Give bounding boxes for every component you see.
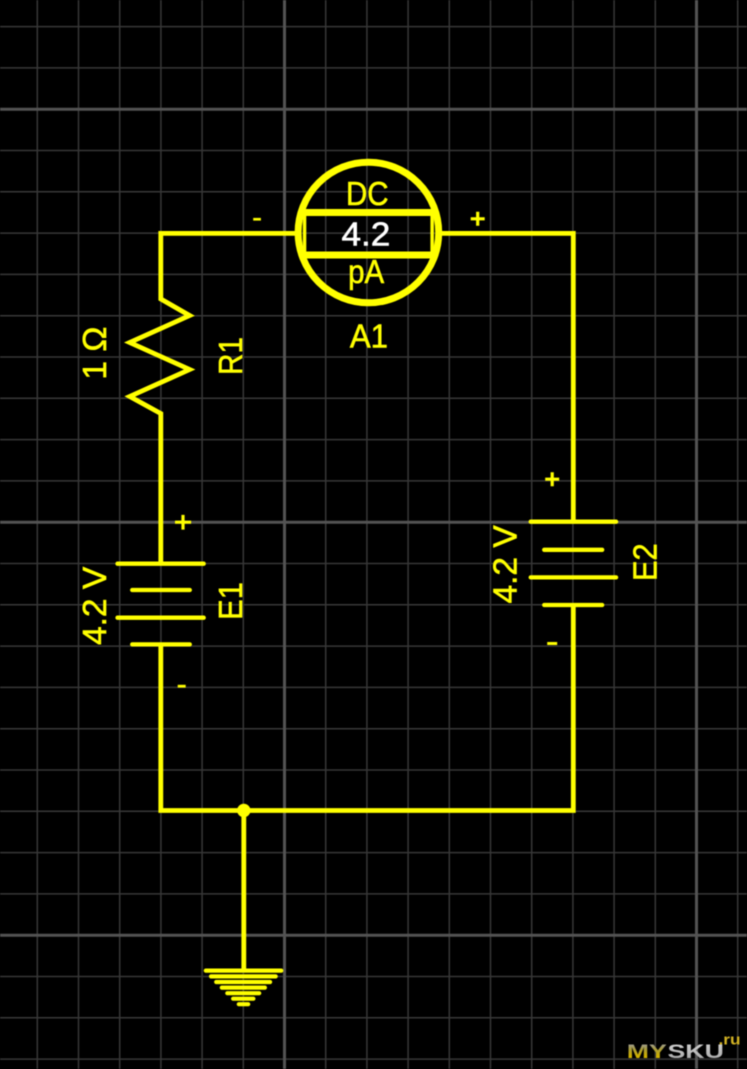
svg-text:1 Ω: 1 Ω <box>77 327 114 380</box>
svg-text:E1: E1 <box>212 582 249 620</box>
svg-text:4.2 V: 4.2 V <box>488 525 525 604</box>
svg-text:4.2 V: 4.2 V <box>77 566 114 645</box>
svg-text:DC: DC <box>346 174 389 212</box>
svg-text:E2: E2 <box>626 543 663 581</box>
svg-text:.ru: .ru <box>719 1032 741 1049</box>
svg-text:R1: R1 <box>211 337 249 375</box>
svg-text:SKU: SKU <box>668 1040 724 1062</box>
svg-text:4.2: 4.2 <box>341 216 390 253</box>
svg-text:MY: MY <box>627 1040 668 1062</box>
svg-text:A1: A1 <box>350 317 388 354</box>
svg-text:pA: pA <box>348 252 384 290</box>
